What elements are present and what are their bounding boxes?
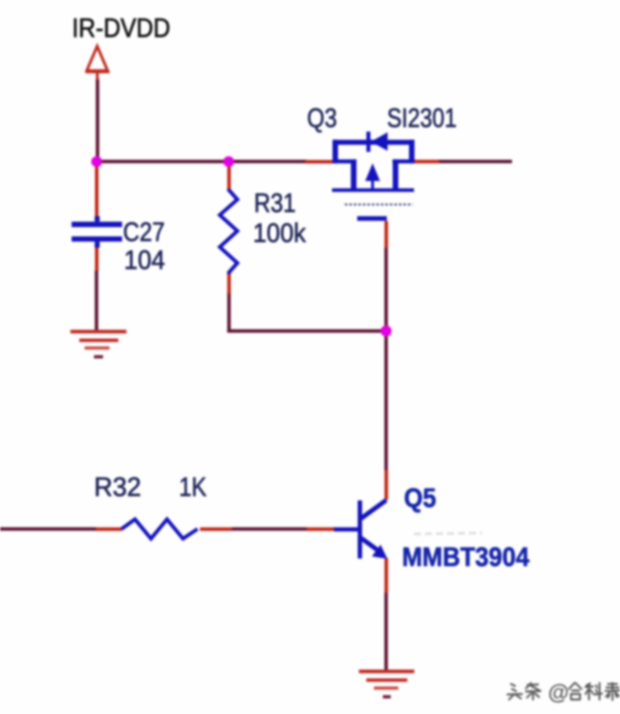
svg-text:@: @ xyxy=(548,681,569,705)
